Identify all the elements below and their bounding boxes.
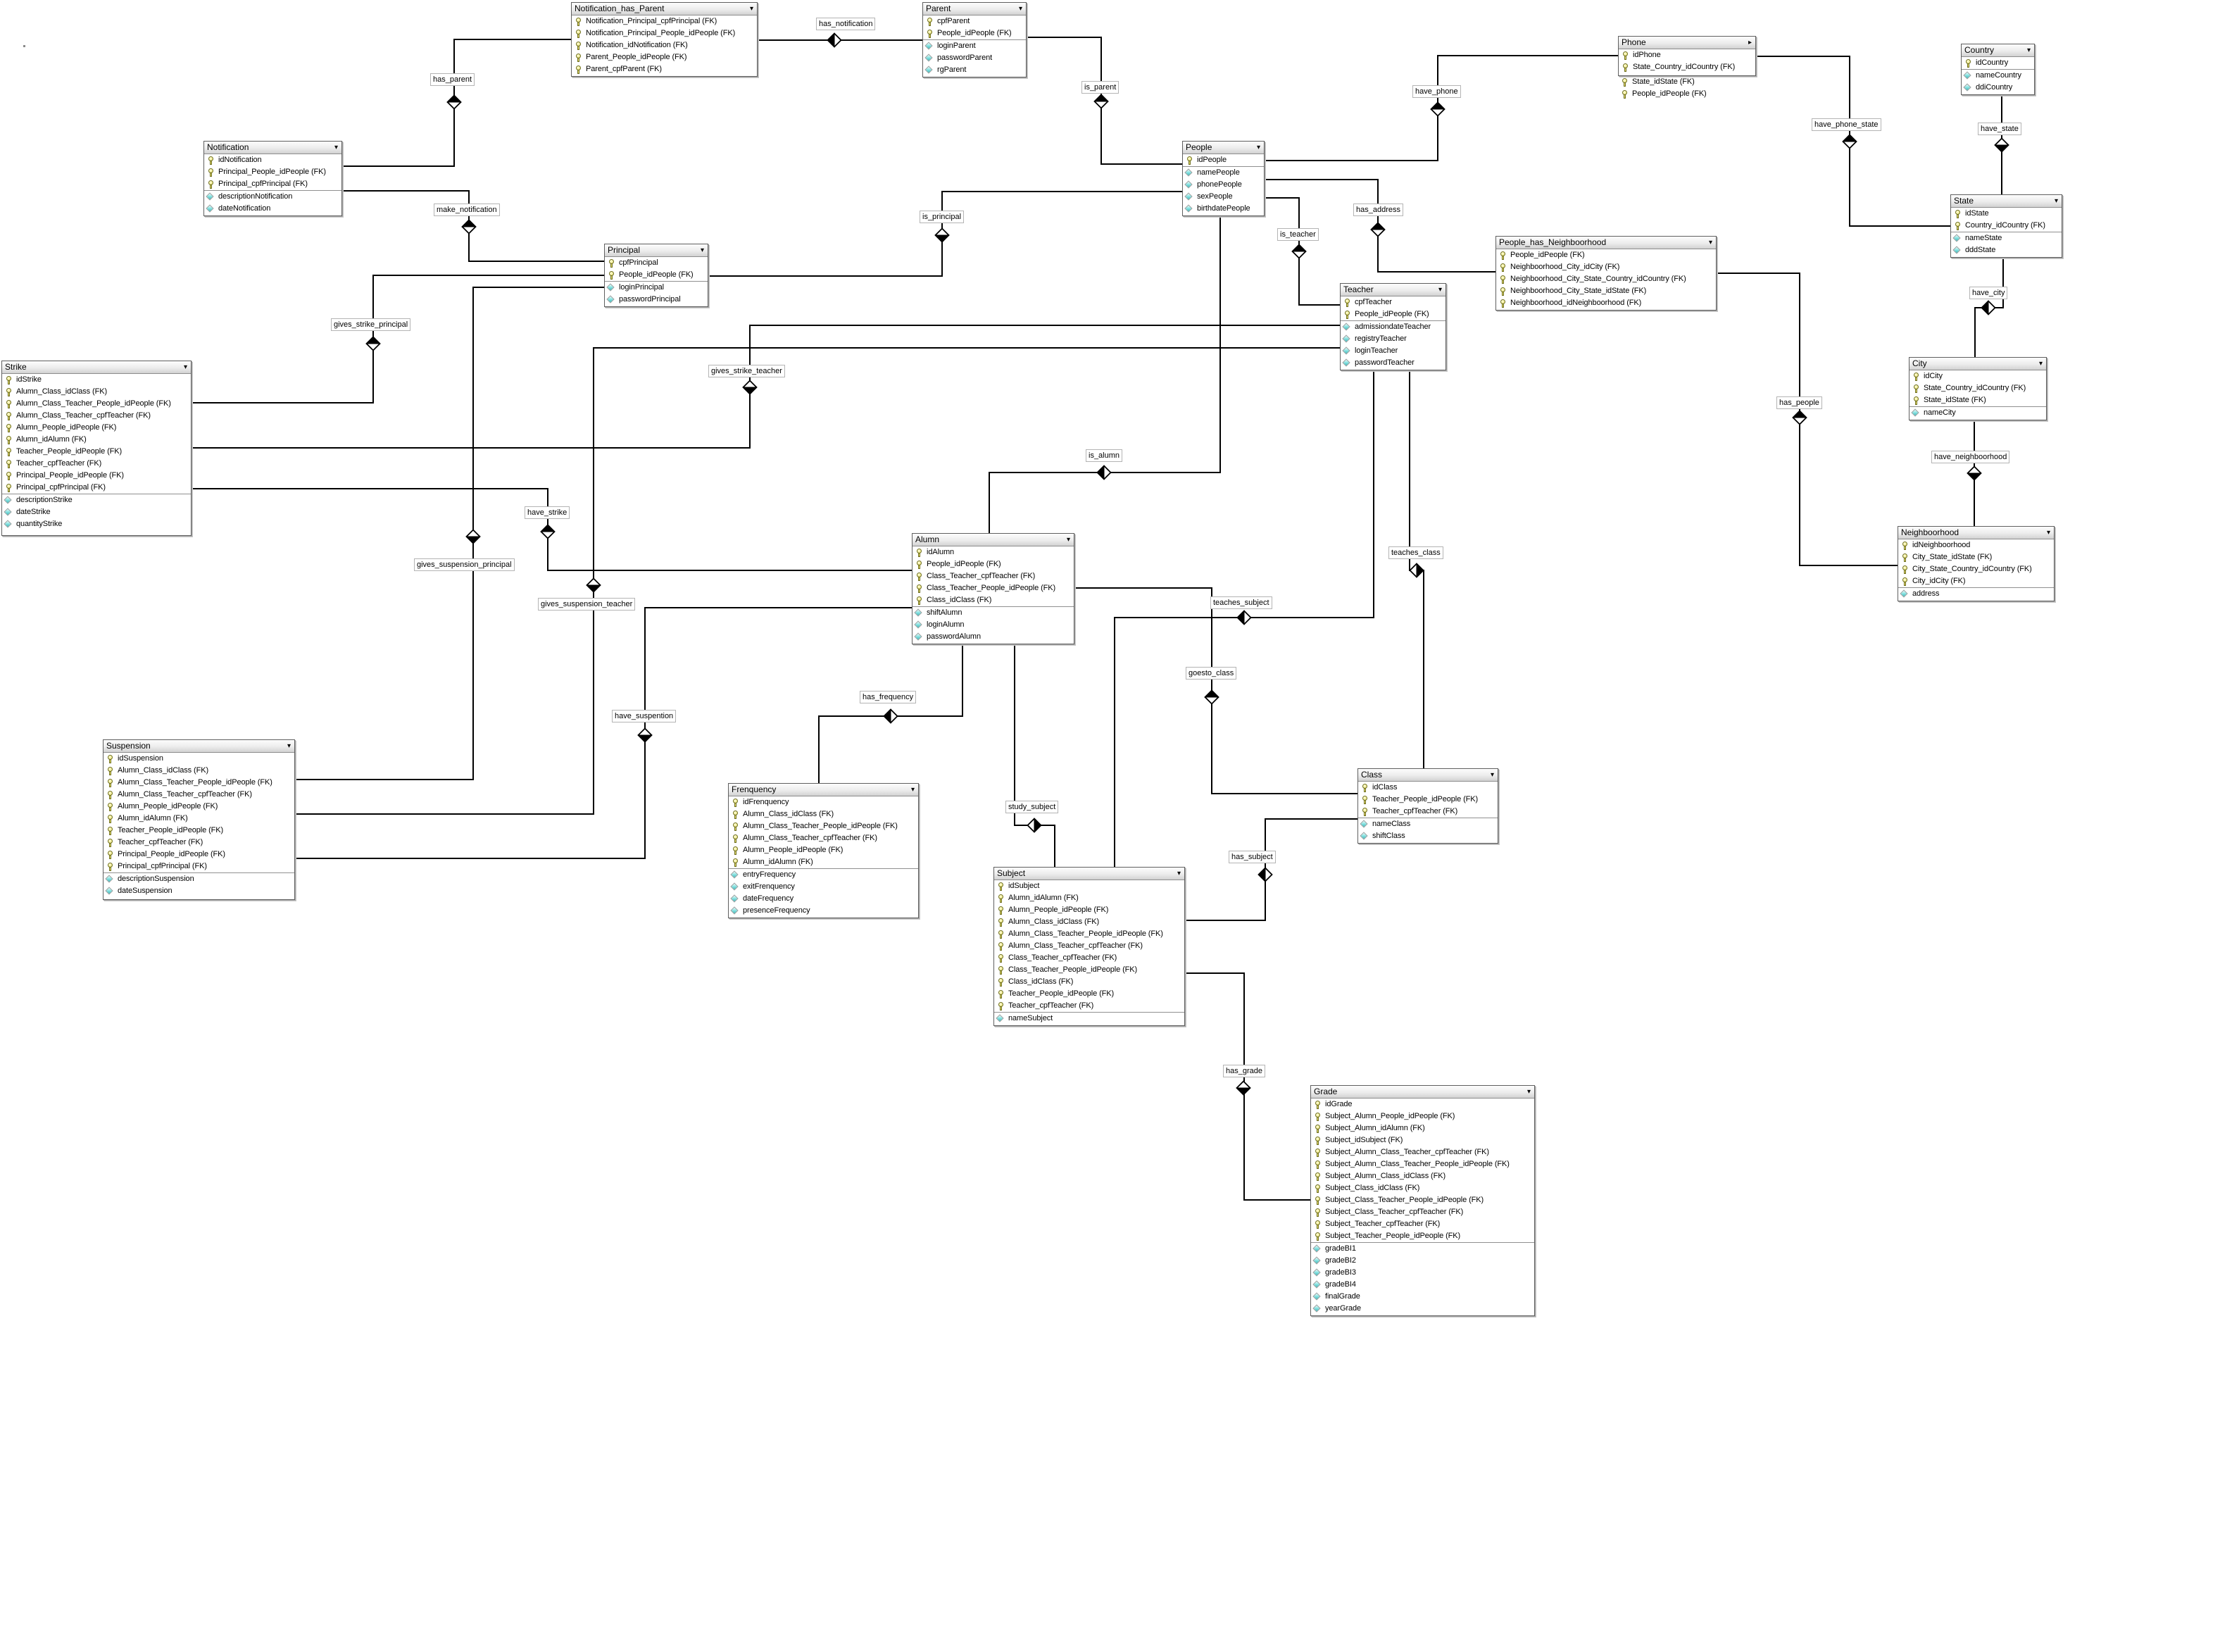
relationship label have_neighboorhood — [1931, 451, 2009, 463]
wire has_frequency — [819, 644, 962, 783]
relationship label is_parent — [1081, 81, 1119, 94]
table Frenquency — [728, 783, 919, 918]
table People_has_Neighboorhood — [1495, 236, 1717, 311]
relationship diamond gives_suspension_principal — [467, 530, 480, 544]
relationship diamond have_city — [1982, 301, 1995, 315]
relationship label gives_strike_teacher — [708, 365, 785, 377]
wire is_parent — [1025, 37, 1182, 164]
relationship label is_alumn — [1086, 449, 1122, 462]
wire make_notification — [341, 191, 604, 261]
relationship label has_address — [1353, 204, 1403, 216]
relationship label has_subject — [1229, 851, 1276, 863]
wire has_grade — [1184, 973, 1310, 1200]
table Phone overflow rows — [1618, 76, 1755, 100]
relationship label has_frequency — [860, 691, 916, 703]
relationship label has_grade — [1223, 1065, 1265, 1077]
table Grade — [1310, 1085, 1535, 1316]
table Phone — [1618, 36, 1756, 76]
wire teaches_subject — [1115, 370, 1374, 867]
wire has_parent — [341, 39, 571, 166]
relationship label has_people — [1776, 396, 1822, 409]
relationship diamond have_state — [1995, 139, 2009, 152]
table Teacher — [1340, 283, 1446, 370]
relationship diamond have_neighboorhood — [1968, 467, 1981, 480]
relationship diamond gives_strike_teacher — [744, 381, 757, 394]
wire has_subject — [1184, 819, 1357, 920]
table State — [1950, 194, 2062, 258]
wire teaches_class — [1410, 370, 1424, 768]
table Suspension — [103, 739, 295, 900]
relationship diamond have_phone — [1431, 103, 1445, 116]
relationship diamond is_alumn — [1098, 466, 1111, 480]
relationship label is_teacher — [1277, 228, 1319, 241]
wire gives_suspension_teacher — [294, 348, 1340, 814]
relationship diamond have_suspention — [639, 729, 652, 742]
relationship diamond is_teacher — [1293, 245, 1306, 258]
relationship diamond goesto_class — [1205, 691, 1219, 704]
relationship label have_suspention — [612, 710, 676, 722]
wire have_city — [1975, 258, 2003, 357]
relationship label have_phone_state — [1812, 118, 1881, 131]
relationship label teaches_subject — [1210, 596, 1272, 609]
relationship label gives_suspension_teacher — [538, 598, 635, 611]
relationship diamond has_address — [1372, 223, 1385, 237]
wire have_phone_state — [1755, 56, 1950, 226]
table Notification — [203, 141, 342, 216]
wire has_people — [1715, 273, 1898, 565]
relationship diamond teaches_subject — [1238, 611, 1251, 625]
relationship diamond has_subject — [1259, 868, 1272, 882]
relationship diamond has_frequency — [884, 710, 898, 723]
relationship label have_state — [1978, 123, 2021, 135]
wire have_strike — [190, 489, 912, 570]
relationship diamond has_parent — [448, 96, 461, 109]
wire gives_strike_principal — [190, 275, 604, 403]
stray mark top-left — [23, 45, 25, 47]
relationship label has_notification — [816, 18, 875, 30]
wire is_principal — [707, 192, 1182, 276]
table Country — [1961, 44, 2035, 95]
wire study_subject — [1015, 644, 1055, 867]
table Class — [1357, 768, 1498, 844]
relationship label gives_strike_principal — [331, 318, 410, 331]
relationship diamond has_people — [1793, 411, 1807, 425]
relationship label is_principal — [920, 211, 964, 223]
relationship diamond gives_suspension_teacher — [587, 579, 601, 592]
relationship diamond teaches_class — [1410, 564, 1424, 577]
relationship label goesto_class — [1186, 667, 1236, 680]
table Notification_has_Parent — [571, 2, 758, 77]
wire has_notification — [756, 39, 922, 41]
table Alumn — [912, 533, 1074, 644]
relationship diamond is_parent — [1095, 95, 1108, 108]
relationship label have_phone — [1412, 85, 1461, 98]
relationship diamond have_phone_state — [1843, 135, 1857, 149]
wire have_phone — [1263, 56, 1618, 161]
wire has_address — [1263, 180, 1495, 272]
wire is_alumn — [989, 216, 1220, 533]
wire have_state — [2001, 95, 2002, 194]
wire gives_suspension_principal — [294, 287, 604, 780]
table Parent — [922, 2, 1027, 77]
wire goesto_class — [1073, 588, 1357, 794]
relationship diamond have_strike — [541, 525, 555, 539]
relationship label have_strike — [525, 506, 570, 519]
table Strike — [1, 361, 192, 536]
relationship diamond has_notification — [828, 34, 841, 47]
wire gives_strike_teacher — [190, 325, 1340, 448]
wire have_neighboorhood — [1974, 420, 1975, 526]
relationship label has_parent — [430, 73, 475, 86]
table Subject — [993, 867, 1185, 1026]
wire is_teacher — [1263, 198, 1340, 305]
relationship label study_subject — [1005, 801, 1058, 813]
relationship diamond make_notification — [463, 220, 476, 234]
relationship label make_notification — [434, 204, 500, 216]
table Principal — [604, 244, 708, 307]
table Neighboorhood — [1898, 526, 2055, 601]
relationship label teaches_class — [1388, 546, 1443, 559]
wire have_suspention — [294, 608, 912, 858]
relationship diamond gives_strike_principal — [367, 337, 380, 351]
table City — [1909, 357, 2047, 420]
relationship label have_city — [1969, 287, 2007, 299]
relationship diamond is_principal — [936, 229, 949, 242]
relationship label gives_suspension_principal — [414, 558, 515, 571]
relationship diamond study_subject — [1028, 819, 1041, 832]
table People — [1182, 141, 1265, 216]
relationship diamond has_grade — [1237, 1082, 1250, 1095]
